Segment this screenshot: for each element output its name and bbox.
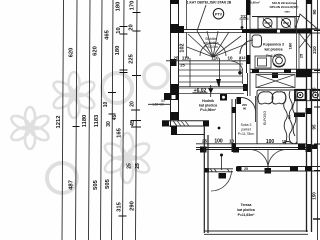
watermark <box>9 64 168 193</box>
sill-side black tick <box>312 145 317 150</box>
svg-text:10: 10 <box>116 27 122 33</box>
french doors <box>250 150 287 169</box>
washer rails <box>294 89 320 100</box>
black bar below washers <box>294 113 305 118</box>
svg-text:90: 90 <box>243 107 247 111</box>
svg-text:Soba 3: Soba 3 <box>241 123 252 127</box>
bathroom label <box>263 43 284 59</box>
svg-text:Kupaonica 3: Kupaonica 3 <box>263 43 284 47</box>
svg-text:110: 110 <box>182 56 190 61</box>
bathroom door leaf <box>240 35 262 54</box>
svg-text:85: 85 <box>312 87 317 93</box>
wardrobe crossed <box>256 75 295 88</box>
svg-text:20: 20 <box>130 101 136 107</box>
svg-text:620: 620 <box>69 48 75 58</box>
svg-text:180: 180 <box>288 42 293 49</box>
terrace label <box>237 203 255 217</box>
kitchen hob squares <box>252 17 300 30</box>
right dim line <box>312 0 320 240</box>
stair right wall <box>246 0 251 73</box>
small horizontal dim line left of plan wall <box>148 99 171 107</box>
svg-text:Terasa: Terasa <box>241 203 252 207</box>
svg-text:20: 20 <box>129 24 135 30</box>
svg-text:1183: 1183 <box>94 114 100 127</box>
svg-text:212: 212 <box>241 14 249 19</box>
black block on wardrobe top <box>272 73 278 78</box>
sill black blocks <box>200 147 207 153</box>
svg-text:620: 620 <box>93 46 99 56</box>
washer 1 <box>295 90 306 100</box>
bathroom bottom wall <box>250 69 320 77</box>
svg-text:NPLHN 2GA/LIZ(SP): NPLHN 2GA/LIZ(SP) <box>270 5 299 9</box>
svg-text:1.KAT OBITELJSKI STAN 2B: 1.KAT OBITELJSKI STAN 2B <box>187 0 232 4</box>
lower-left wall band <box>162 121 209 135</box>
stair straight flight treads <box>178 58 243 87</box>
stair direction arrow <box>216 79 221 87</box>
svg-text:100: 100 <box>214 139 223 145</box>
svg-text:25: 25 <box>180 63 185 68</box>
PTV circle <box>213 9 223 19</box>
svg-text:kat pločica: kat pločica <box>199 104 217 108</box>
svg-text:ELPOSO: ELPOSO <box>263 111 267 125</box>
hodnik label <box>199 99 217 112</box>
svg-text:180: 180 <box>115 46 121 56</box>
svg-text:170: 170 <box>130 1 136 11</box>
corridor lamp dot <box>218 127 221 130</box>
svg-text:90: 90 <box>312 9 317 15</box>
winder stair fan <box>187 31 247 58</box>
svg-text:45: 45 <box>130 119 136 126</box>
bathroom sink <box>255 56 271 68</box>
dim line under stairs <box>166 55 250 68</box>
svg-text:P=11,78m²: P=11,78m² <box>238 132 255 136</box>
svg-text:P=5,10m²: P=5,10m² <box>204 45 218 49</box>
dim line C <box>89 0 91 240</box>
rail diagonal top <box>197 5 206 31</box>
svg-text:505: 505 <box>105 178 111 188</box>
rotated dimension labels <box>56 1 141 212</box>
dim line D <box>101 0 103 240</box>
svg-text:kat pločica: kat pločica <box>264 48 282 52</box>
svg-text:90: 90 <box>288 115 292 119</box>
terrace left wall <box>204 126 208 233</box>
door hinge block <box>243 84 248 91</box>
svg-text:10: 10 <box>227 56 233 61</box>
bed <box>257 90 297 144</box>
level marker <box>193 85 214 97</box>
dim line B <box>76 0 78 240</box>
soba3 label <box>238 123 255 136</box>
svg-text:10: 10 <box>229 139 235 144</box>
pendant lamp <box>238 57 242 75</box>
label 212 top with leader <box>240 14 249 29</box>
svg-text:150: 150 <box>312 192 317 200</box>
svg-text:110: 110 <box>211 56 219 61</box>
hodnik lines <box>179 88 246 94</box>
svg-text:25: 25 <box>173 56 179 61</box>
bedroom south wall sill <box>196 148 307 150</box>
svg-text:210: 210 <box>312 46 317 54</box>
svg-text:30: 30 <box>106 121 112 127</box>
svg-text:45: 45 <box>112 115 118 121</box>
left dimension lines <box>62 0 137 240</box>
bedroom door <box>241 96 256 122</box>
stair top wall <box>176 26 250 33</box>
WC <box>273 54 286 67</box>
curved leader to 212 <box>231 61 243 84</box>
svg-text:25: 25 <box>244 167 248 171</box>
dim line E <box>112 0 114 240</box>
svg-text:10: 10 <box>103 102 109 108</box>
svg-text:25: 25 <box>135 163 141 169</box>
black post with dot <box>220 94 227 101</box>
svg-text:290: 290 <box>130 201 136 211</box>
window in left wall <box>164 93 171 100</box>
terrace door <box>204 154 233 192</box>
svg-text:465: 465 <box>105 29 111 39</box>
terrace bottom wall <box>204 231 308 234</box>
svg-text:P=4,56m²: P=4,56m² <box>200 108 216 112</box>
top right thick wall <box>250 29 320 33</box>
terrace top wall <box>236 167 320 172</box>
svg-text:487: 487 <box>69 180 75 190</box>
svg-text:100: 100 <box>266 139 275 145</box>
svg-text:102: 102 <box>180 43 186 52</box>
svg-text:kat pločica: kat pločica <box>237 208 255 212</box>
stair label <box>203 37 218 49</box>
svg-text:parket: parket <box>241 128 250 132</box>
wardrobe left wall <box>248 73 251 96</box>
dim line F <box>123 0 125 240</box>
svg-text:95: 95 <box>312 124 317 130</box>
svg-text:P=11,63m²: P=11,63m² <box>238 213 256 217</box>
duct vertical lines <box>297 0 312 69</box>
svg-text:Hodnik: Hodnik <box>202 99 214 103</box>
tick marks on dimension lines <box>73 13 142 217</box>
left exterior wall <box>170 0 179 127</box>
stair side wall line <box>186 0 188 30</box>
svg-text:225: 225 <box>129 53 135 63</box>
svg-text:1180: 1180 <box>82 115 88 128</box>
svg-text:25: 25 <box>299 53 304 58</box>
svg-text:P=6,95m²: P=6,95m² <box>246 0 259 4</box>
flue triangle <box>295 14 317 29</box>
svg-text:1,50+20: 1,50+20 <box>152 103 164 107</box>
svg-text:10: 10 <box>282 139 287 144</box>
right exterior wall <box>306 0 313 232</box>
svg-text:PTV: PTV <box>215 12 223 16</box>
svg-text:180: 180 <box>116 2 122 12</box>
svg-text:315: 315 <box>117 201 123 211</box>
svg-text:stan: stan <box>284 10 290 14</box>
svg-text:165: 165 <box>117 127 123 137</box>
dim line A <box>62 0 64 240</box>
bedroom south dim line <box>196 139 307 146</box>
svg-text:1212: 1212 <box>56 116 62 129</box>
kitchen tiny title text <box>246 0 298 9</box>
svg-text:505: 505 <box>93 179 99 189</box>
svg-text:25: 25 <box>127 163 133 169</box>
washer 2 <box>311 90 320 100</box>
dim line G <box>136 0 138 240</box>
hodnik-soba wall <box>232 99 237 152</box>
